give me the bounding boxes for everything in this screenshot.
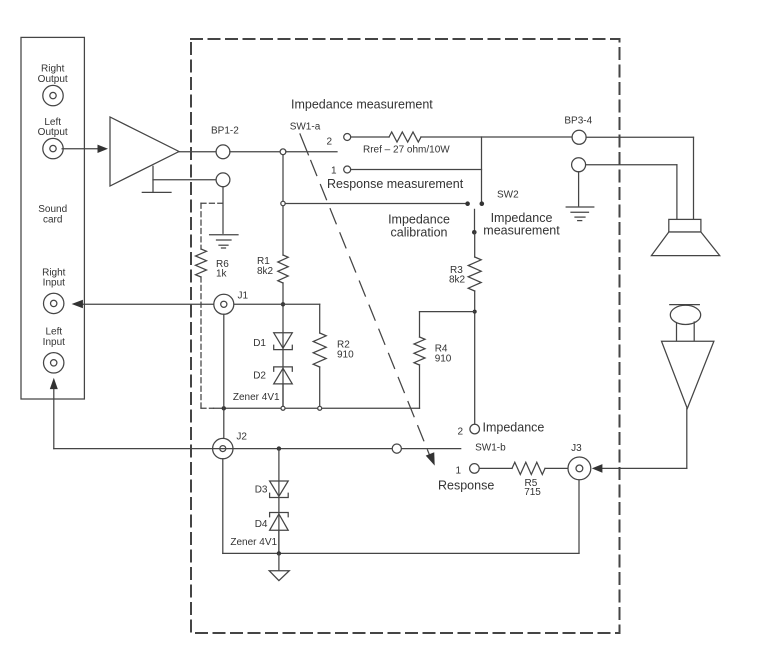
svg-text:910: 910: [337, 350, 354, 361]
diode D4 zener: [270, 513, 289, 531]
wire calibration line to SW2: [285, 203, 465, 205]
switch lever dashed link SW1-a to SW1-b: [300, 134, 439, 467]
wire lower rail up to J3: [578, 481, 580, 554]
svg-text:2: 2: [458, 426, 464, 437]
svg-text:2: 2: [327, 136, 333, 147]
wire D4 to lower rail: [278, 530, 280, 553]
svg-text:SW1-a: SW1-a: [290, 121, 321, 132]
wire J1 horizontal line: [80, 303, 320, 305]
SW1-a contact 1 circle: [344, 166, 351, 173]
resistor R2: [313, 304, 326, 406]
svg-text:Impedance: Impedance: [388, 212, 450, 226]
svg-text:Impedance measurement: Impedance measurement: [291, 98, 433, 112]
wire node A to SW1-a common: [286, 151, 337, 153]
svg-text:D2: D2: [253, 371, 266, 382]
svg-text:Input: Input: [43, 278, 65, 289]
wire BP4 to ground: [578, 172, 580, 206]
diode D3 zener: [270, 481, 289, 498]
outer dashed box: [191, 39, 620, 633]
svg-text:1: 1: [331, 166, 337, 177]
wire Rref to BP3: [421, 136, 572, 138]
node tap circle (calibration): [281, 201, 285, 205]
op-amp U1 power amplifier: [110, 117, 179, 186]
wire amp output to BP1: [179, 151, 216, 153]
wire J2 line down to D3: [278, 449, 280, 554]
jack Left Output: [43, 138, 63, 158]
wire R4 to bottom rail: [419, 365, 421, 408]
wire R3 to node B: [474, 291, 476, 424]
ground (amplifier): [142, 166, 171, 192]
svg-text:measurement: measurement: [483, 224, 560, 238]
SW1-b contact 2 circle: [470, 424, 480, 434]
resistor R4: [414, 337, 425, 365]
wire J1 down to J2: [223, 314, 225, 438]
svg-text:1k: 1k: [216, 269, 228, 280]
resistor Rref: [389, 132, 421, 142]
svg-text:Input: Input: [43, 337, 65, 348]
svg-text:SW1-b: SW1-b: [475, 443, 506, 454]
SW1-a contact 2 circle: [344, 134, 351, 141]
wire BP1 to node A: [230, 151, 280, 153]
svg-text:910: 910: [435, 353, 452, 364]
svg-text:1: 1: [456, 466, 462, 477]
node A junction circle: [280, 149, 286, 155]
wire BP2 down to ground: [222, 187, 224, 234]
SW2 common dot: [472, 230, 477, 235]
wire contact1 to R5: [479, 467, 512, 469]
resistor R6: [196, 249, 207, 277]
arrow into Left Input: [50, 378, 58, 389]
SW2 contact dots: [465, 201, 470, 206]
svg-text:Zener 4V1: Zener 4V1: [233, 392, 280, 403]
ground (BP4): [566, 207, 594, 221]
wire BP3 to speaker: [586, 137, 693, 219]
svg-text:715: 715: [524, 487, 541, 498]
svg-text:BP1-2: BP1-2: [211, 126, 239, 137]
node dot lower rail: [277, 551, 281, 555]
wire R1 to J1 line: [282, 283, 284, 406]
SW1-b common circle: [392, 444, 401, 453]
svg-text:J1: J1: [238, 290, 249, 301]
ground (below BP2): [210, 235, 238, 248]
svg-text:D3: D3: [255, 485, 268, 496]
resistor R1: [278, 255, 288, 283]
bottom rail (zener network): [214, 407, 420, 409]
svg-text:Output: Output: [38, 127, 68, 138]
terminal BP1: [216, 145, 230, 159]
svg-text:Response measurement: Response measurement: [327, 177, 464, 191]
node circle rail/D2: [281, 406, 285, 410]
svg-text:J3: J3: [571, 443, 582, 454]
sound card box: [21, 37, 84, 399]
terminal BP4: [572, 158, 586, 172]
wire microphone down: [686, 409, 688, 469]
wire dashed R6 to bottom rail: [201, 277, 214, 408]
wire BP4 to speaker: [586, 165, 677, 220]
svg-text:Impedance: Impedance: [483, 420, 545, 434]
node circle rail/R2: [318, 406, 322, 410]
svg-text:Response: Response: [438, 479, 494, 493]
svg-text:D4: D4: [255, 519, 268, 530]
wire J2 down to lower rail: [222, 459, 224, 554]
svg-text:J2: J2: [236, 432, 247, 443]
wire Left Input riser: [53, 386, 55, 449]
terminal BP3: [572, 130, 586, 144]
SW2 lever: [474, 209, 476, 232]
jack J1: [214, 294, 234, 314]
wire D2 to bottom rail: [282, 384, 284, 406]
wire contact2 to Rref: [351, 136, 389, 138]
svg-text:BP3-4: BP3-4: [564, 115, 592, 126]
svg-text:Zener 4V1: Zener 4V1: [230, 537, 277, 548]
svg-text:card: card: [43, 214, 62, 225]
svg-text:Output: Output: [38, 74, 68, 85]
wire J2 horizontal line: [54, 448, 461, 450]
node dot J2/diode branch: [277, 446, 281, 450]
jack Left Input: [44, 353, 64, 373]
resistor R5: [512, 462, 545, 474]
wire node A down to R1: [282, 155, 284, 255]
svg-text:8k2: 8k2: [257, 266, 274, 277]
jack J2: [213, 438, 233, 458]
wire amp to BP2: [153, 179, 216, 181]
svg-text:D1: D1: [253, 338, 266, 349]
SW1-b contact 1 circle: [470, 464, 480, 474]
arrow into Right Input: [72, 300, 83, 308]
wire R5 to J3: [545, 467, 568, 469]
microphone M1: [662, 305, 714, 409]
wire Rref node down to SW2: [481, 137, 483, 202]
lower rail wire: [223, 552, 579, 554]
wire SW2 to R3: [474, 232, 476, 257]
wire dashed link ground line to R6: [201, 203, 223, 249]
node dot rail/J1 vertical: [222, 406, 226, 410]
wire node B to R4: [420, 312, 475, 337]
svg-text:Rref – 27 ohm/10W: Rref – 27 ohm/10W: [363, 145, 450, 156]
jack Right Output: [43, 85, 63, 105]
diode D2 zener: [274, 367, 293, 384]
resistor R3: [468, 257, 481, 291]
jack Right Input: [44, 293, 64, 313]
svg-text:8k2: 8k2: [449, 275, 466, 286]
diode D1 zener: [274, 333, 293, 350]
node B junction dot: [473, 310, 477, 314]
svg-text:SW2: SW2: [497, 189, 519, 200]
wire Left Output to amplifier: [62, 145, 108, 153]
svg-text:calibration: calibration: [391, 226, 448, 240]
terminal BP2: [216, 173, 230, 187]
node junction dot R1/J1: [281, 302, 285, 306]
wire contact1 to SW2 node: [351, 169, 482, 171]
arrow into J3 from microphone: [592, 464, 687, 473]
jack J3: [568, 457, 591, 480]
ground triangle (lower): [269, 553, 289, 580]
speaker LS1: [651, 219, 719, 255]
